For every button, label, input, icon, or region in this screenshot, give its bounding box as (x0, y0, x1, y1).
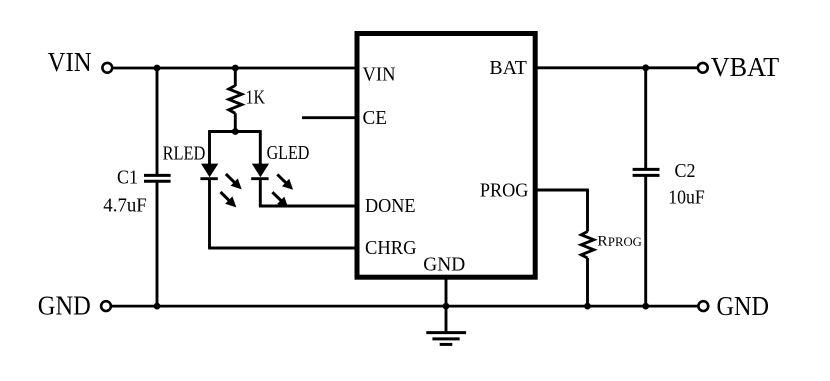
LED RLED (200, 130, 218, 248)
wire GND rail (112, 305, 698, 308)
C1 top plate (144, 174, 171, 177)
svg-text:VIN: VIN (363, 64, 396, 86)
svg-text:GND: GND (38, 290, 91, 321)
ground symbol (426, 333, 466, 345)
svg-text:10uF: 10uF (668, 187, 705, 209)
node VBAT terminal circle (698, 63, 708, 73)
svg-text:RLED: RLED (163, 143, 206, 165)
wire RLED anode lead (208, 130, 211, 164)
node VIN terminal circle (102, 63, 112, 73)
C2 bottom plate (633, 174, 660, 177)
junction C1 bottom (154, 303, 161, 310)
RLED cathode bar (200, 177, 217, 180)
node GND right terminal circle (698, 301, 708, 311)
svg-text:GND: GND (423, 254, 465, 276)
svg-text:4.7uF: 4.7uF (103, 194, 147, 216)
C1 bottom plate (144, 180, 171, 183)
svg-text:VBAT: VBAT (711, 51, 780, 82)
wire CE stub (302, 116, 357, 119)
capacitor C2 (633, 68, 660, 306)
wire GLED anode lead (259, 130, 262, 164)
wire RLED cathode lead (208, 179, 211, 248)
GLED triangle (252, 164, 269, 178)
op IC U1 body (357, 34, 535, 278)
wire PROG stub (535, 190, 587, 232)
GLED cathode bar (251, 177, 268, 180)
svg-text:CE: CE (363, 107, 388, 129)
junction C2 bottom (642, 303, 649, 310)
svg-text:1K: 1K (246, 87, 266, 109)
junction RPROG bottom (584, 303, 591, 310)
C2 top plate (633, 168, 660, 171)
wire C2 bottom lead (644, 176, 647, 306)
wire RLED to CHRG pin (208, 247, 357, 250)
wire C2 top lead (644, 68, 647, 171)
wire C1 top lead (156, 68, 159, 175)
svg-text:BAT: BAT (489, 57, 527, 79)
wire BAT pin to VBAT terminal (535, 66, 698, 69)
GLED arrow 1 (277, 174, 293, 189)
junction C1 top (154, 65, 161, 72)
RLED arrow 2 (221, 192, 237, 207)
junction 1K top (232, 65, 239, 72)
svg-text:CHRG: CHRG (365, 237, 417, 259)
svg-text:GND: GND (717, 290, 770, 321)
wire 1K top lead (234, 68, 237, 86)
svg-text:PROG: PROG (480, 180, 529, 202)
junction C2 top (642, 64, 649, 71)
svg-text:C2: C2 (675, 160, 696, 182)
svg-text:GLED: GLED (267, 142, 310, 164)
wire RPROG bottom lead (586, 258, 589, 306)
capacitor C1 (144, 68, 171, 306)
wire GLED to DONE pin (259, 205, 357, 208)
svg-text:R: R (597, 233, 608, 250)
RLED triangle (201, 164, 218, 178)
wire GLED cathode lead (259, 179, 262, 206)
wire C1 bottom lead (156, 182, 159, 306)
wire IC GND pin stem (445, 277, 448, 333)
wire VIN terminal to IC VIN pin (113, 67, 357, 70)
junction GND stem (443, 303, 450, 310)
junction LED split (232, 128, 239, 135)
svg-text:C1: C1 (117, 167, 138, 189)
svg-text:VIN: VIN (48, 46, 92, 77)
LED GLED (251, 130, 269, 206)
node GND left terminal circle (101, 301, 111, 311)
svg-text:PROG: PROG (608, 235, 642, 249)
wire LED split bar (210, 130, 261, 133)
1K zigzag body (229, 86, 242, 114)
resistor RPROG (581, 232, 594, 307)
RLED arrow 1 (226, 174, 242, 189)
GLED arrow 2 (272, 192, 288, 207)
wire 1K bottom lead (234, 113, 237, 131)
svg-text:DONE: DONE (365, 195, 416, 217)
resistor R1 1K (229, 68, 242, 132)
RPROG zigzag body (581, 232, 594, 259)
